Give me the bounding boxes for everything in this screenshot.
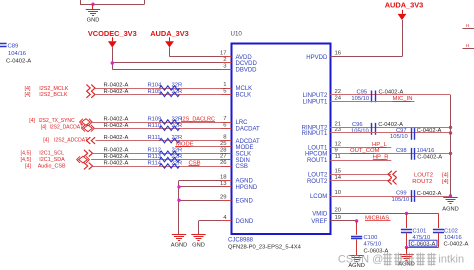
wire RINPUT1 row — [330, 132, 450, 134]
wire VMID row — [330, 213, 438, 215]
svg-text:C-0402-A: C-0402-A — [417, 128, 442, 134]
svg-text:CJC8988: CJC8988 — [228, 237, 254, 243]
capacitor C97 — [412, 128, 415, 140]
top gnd net wire — [80, 0, 82, 4]
off-page I2S2_BCLK — [86, 91, 95, 98]
svg-text:C102: C102 — [444, 229, 458, 235]
wire AGND/HPGND/EGND bus — [179, 180, 231, 182]
svg-text:C-0402-A: C-0402-A — [444, 241, 469, 247]
ground AGND under C100 — [349, 256, 363, 262]
svg-text:105/10: 105/10 — [392, 197, 410, 203]
wire/resistor R109 — [92, 122, 231, 124]
junction RINPUT1 bus — [449, 131, 452, 134]
svg-text:[4]: [4] — [43, 137, 49, 143]
wire/resistor R113 — [91, 159, 231, 161]
svg-text:ROUT2: ROUT2 — [412, 179, 432, 185]
svg-text:R-0402-A: R-0402-A — [104, 154, 129, 160]
svg-text:16: 16 — [335, 51, 342, 57]
svg-text:104/16: 104/16 — [8, 51, 27, 57]
svg-text:H: H — [466, 43, 469, 48]
svg-text:C100: C100 — [364, 235, 378, 241]
svg-text:AUDA_3V3: AUDA_3V3 — [150, 29, 189, 38]
svg-text:H: H — [466, 23, 469, 28]
svg-text:LRC: LRC — [236, 120, 249, 126]
svg-text:DGND: DGND — [236, 219, 254, 225]
junction VCODEC — [111, 61, 114, 64]
off-page I2S2_TX_SYNC — [80, 119, 93, 126]
svg-text:7: 7 — [223, 116, 226, 122]
svg-text:DBVDD: DBVDD — [236, 68, 258, 74]
svg-text:QFN28-P0_23-EPS2_5-4X4: QFN28-P0_23-EPS2_5-4X4 — [228, 244, 302, 250]
svg-text:I2S2_BCLK: I2S2_BCLK — [39, 92, 68, 98]
svg-text:C95: C95 — [357, 90, 368, 96]
capacitor C99 — [412, 190, 415, 202]
capacitor C100 — [356, 221, 358, 235]
svg-text:R104: R104 — [148, 83, 163, 89]
svg-text:AGND: AGND — [442, 207, 458, 213]
svg-text:28: 28 — [220, 147, 227, 153]
svg-text:R109: R109 — [148, 117, 162, 123]
svg-text:MODE: MODE — [236, 145, 254, 151]
watermark CSDN — [338, 253, 464, 266]
svg-text:[4]: [4] — [442, 179, 449, 185]
wire AUDA to pin 17 — [169, 47, 171, 56]
wire ROUT1 / net HP_R — [330, 160, 391, 162]
wire/resistor R112 — [93, 153, 232, 155]
svg-text:104/16: 104/16 — [444, 235, 462, 241]
svg-text:475/10: 475/10 — [364, 242, 382, 248]
svg-text:HPGND: HPGND — [236, 185, 258, 191]
svg-text:I2S2_ADCDAT: I2S2_ADCDAT — [54, 137, 88, 143]
capacitor C89 — [0, 44, 7, 47]
svg-text:I2S2_MCLK: I2S2_MCLK — [39, 86, 68, 92]
svg-text:MCLK: MCLK — [236, 86, 253, 92]
ground AGND under C101 — [406, 248, 408, 255]
off-page I2C1_SDA — [77, 156, 90, 163]
svg-text:R110: R110 — [148, 123, 161, 129]
svg-text:22R: 22R — [172, 154, 183, 160]
wire row R105 — [95, 94, 231, 96]
capacitor C95 — [372, 91, 376, 103]
edge stub HP_L top right — [463, 28, 474, 30]
junction HPGND — [177, 185, 180, 188]
svg-text:R-0402-A: R-0402-A — [104, 123, 129, 129]
junction top gnd — [91, 2, 94, 5]
svg-text:22R: 22R — [172, 123, 183, 129]
svg-text:1: 1 — [223, 82, 226, 88]
junction EGND — [177, 199, 180, 202]
svg-text:AGND: AGND — [236, 179, 254, 185]
ground GND top — [92, 4, 94, 9]
svg-text:Audio_CSB: Audio_CSB — [38, 163, 66, 169]
svg-text:R114: R114 — [148, 161, 162, 167]
wire row R104 — [95, 88, 231, 90]
svg-text:GND: GND — [192, 243, 205, 249]
wire LOUT1 / net HP_L — [330, 147, 391, 149]
svg-text:VREF: VREF — [311, 219, 327, 225]
wire LINPUT1 row / net MIC_IN — [330, 101, 411, 103]
svg-text:I2S2_TX_SYNC: I2S2_TX_SYNC — [39, 118, 76, 124]
svg-text:22R: 22R — [172, 161, 183, 167]
capacitor C102 — [438, 213, 440, 228]
off-page LOUT2 — [388, 171, 397, 178]
svg-text:LOUT2: LOUT2 — [414, 172, 433, 178]
svg-text:VMID: VMID — [312, 212, 328, 218]
svg-text:CSB: CSB — [236, 164, 248, 170]
svg-text:C101: C101 — [413, 229, 427, 235]
junction HPCOM bus — [449, 152, 452, 155]
junction VREF C100 — [355, 219, 358, 222]
svg-text:[4]: [4] — [25, 163, 31, 169]
svg-text:intkin: intkin — [438, 254, 464, 266]
wire/resistor R110 — [94, 128, 231, 130]
svg-text:CSDN @: CSDN @ — [338, 254, 383, 266]
svg-text:C-0402-A: C-0402-A — [417, 154, 442, 160]
svg-text:ROUT2: ROUT2 — [307, 179, 328, 185]
svg-text:BCLK: BCLK — [236, 93, 252, 99]
off-page I2S2_DACDAT — [82, 125, 95, 132]
svg-text:22R: 22R — [172, 89, 183, 95]
wire VCODEC to pins 2,3 — [112, 47, 114, 69]
svg-text:22R: 22R — [172, 135, 183, 141]
svg-text:I2C1_SDA: I2C1_SDA — [39, 157, 65, 163]
svg-text:AVDD: AVDD — [236, 55, 253, 61]
off-page I2C1_SCL — [84, 150, 93, 157]
svg-text:R111: R111 — [148, 135, 161, 141]
junction C101 bottom — [405, 246, 408, 249]
resistor R105 — [160, 92, 180, 96]
svg-text:27: 27 — [220, 154, 227, 160]
svg-text:[4]: [4] — [29, 118, 35, 124]
svg-text:22R: 22R — [172, 83, 183, 89]
wire LINPUT2 row — [330, 94, 450, 96]
ground AGND bottom-left — [172, 235, 186, 241]
svg-text:17: 17 — [220, 51, 227, 57]
junction VMID C101 — [405, 212, 408, 215]
junction LCOM bus — [449, 194, 452, 197]
svg-text:[4]: [4] — [25, 86, 31, 92]
capacitor C98 — [412, 148, 415, 160]
wire C101-C102 bottom — [407, 247, 439, 249]
svg-text:[4,5]: [4,5] — [21, 157, 32, 163]
svg-text:104/16: 104/16 — [417, 148, 435, 154]
ground GND bottom — [191, 235, 205, 241]
wire ROUT2 — [330, 180, 391, 182]
svg-text:20: 20 — [335, 208, 342, 214]
capacitor C101 — [406, 213, 408, 228]
svg-text:AGND: AGND — [171, 243, 187, 249]
wire HPCOM / net OUT_COM — [330, 153, 450, 155]
svg-text:LOUT2: LOUT2 — [308, 172, 328, 178]
svg-text:105/10: 105/10 — [351, 129, 369, 135]
wire DGND — [199, 220, 232, 222]
svg-text:LCOM: LCOM — [310, 194, 327, 200]
wire input AGND bus — [450, 95, 452, 196]
wire VREF row / net MICBIAS — [330, 220, 356, 222]
svg-text:15: 15 — [335, 168, 342, 174]
svg-text:11: 11 — [335, 154, 341, 160]
off-page I2S2_MCLK — [86, 85, 95, 92]
svg-text:R-0402-A: R-0402-A — [104, 117, 129, 123]
svg-text:DCVDD: DCVDD — [236, 61, 258, 67]
off-page ROUT2 — [388, 178, 397, 185]
svg-text:R-0402-A: R-0402-A — [104, 83, 129, 89]
svg-text:AUDA_3V3: AUDA_3V3 — [385, 1, 424, 10]
svg-text:U10: U10 — [231, 31, 243, 38]
svg-text:C-0402-A: C-0402-A — [417, 191, 442, 197]
op-amp codec U10 box — [232, 44, 331, 235]
svg-text:105/10: 105/10 — [390, 134, 408, 140]
svg-text:9: 9 — [335, 148, 338, 154]
svg-text:RINPUT1: RINPUT1 — [302, 131, 328, 137]
svg-text:SCLK: SCLK — [236, 151, 252, 157]
svg-text:C-0402-A: C-0402-A — [6, 59, 31, 65]
wire HPVDD — [402, 20, 404, 57]
net stub MODE — [175, 146, 231, 148]
svg-text:[4,5]: [4,5] — [21, 151, 32, 157]
svg-text:R105: R105 — [148, 89, 162, 95]
svg-text:[4]: [4] — [25, 92, 31, 98]
svg-text:I2S2_DACDAT: I2S2_DACDAT — [50, 125, 83, 131]
svg-text:EGND: EGND — [236, 198, 254, 204]
wire/resistor R114 — [93, 166, 232, 168]
svg-text:[4]: [4] — [442, 172, 449, 178]
off-page Audio_CSB — [84, 163, 93, 170]
wire/resistor R111 — [96, 140, 232, 142]
wire LOUT2 — [330, 174, 391, 176]
svg-text:I2C1_SCL: I2C1_SCL — [39, 151, 64, 157]
junction RINPUT2 bus — [449, 126, 452, 129]
svg-text:GND: GND — [87, 18, 100, 24]
svg-text:R112: R112 — [148, 148, 161, 154]
svg-text:29: 29 — [220, 194, 227, 200]
svg-text:18: 18 — [220, 175, 227, 181]
resistor R104 — [160, 86, 180, 90]
svg-text:R113: R113 — [148, 154, 161, 160]
svg-text:LINPUT2: LINPUT2 — [303, 93, 328, 99]
svg-text:HPVDD: HPVDD — [306, 55, 328, 61]
wire RINPUT2 row — [330, 127, 450, 129]
svg-text:R-0402-A: R-0402-A — [104, 148, 129, 154]
capacitor C96 — [372, 123, 376, 135]
svg-text:22R: 22R — [172, 148, 183, 154]
svg-text:C96: C96 — [352, 122, 363, 128]
svg-text:R-0402-A: R-0402-A — [104, 135, 129, 141]
ground AGND right — [443, 198, 457, 204]
off-page I2S2_ADCDAT — [87, 137, 96, 144]
edge stub HP_R top right — [463, 48, 474, 50]
svg-text:LINPUT1: LINPUT1 — [303, 100, 328, 106]
svg-text:DACDAT: DACDAT — [236, 127, 261, 133]
svg-text:26: 26 — [220, 160, 227, 166]
svg-text:R-0402-A: R-0402-A — [104, 89, 129, 95]
svg-text:C98: C98 — [396, 148, 407, 154]
svg-text:SDIN: SDIN — [236, 158, 250, 164]
svg-text:10: 10 — [335, 190, 342, 196]
svg-text:C-0402-A: C-0402-A — [379, 89, 404, 95]
svg-text:R-0402-A: R-0402-A — [104, 161, 129, 167]
svg-text:24: 24 — [335, 96, 342, 102]
svg-text:VCODEC_3V3: VCODEC_3V3 — [88, 29, 137, 38]
svg-text:ROUT1: ROUT1 — [307, 158, 328, 164]
svg-text:HPCOM: HPCOM — [305, 152, 327, 158]
svg-text:C99: C99 — [396, 191, 407, 197]
wire LCOM row — [330, 196, 450, 198]
svg-text:[4]: [4] — [41, 125, 47, 131]
svg-text:C89: C89 — [8, 44, 19, 50]
svg-text:ADCDAT: ADCDAT — [236, 139, 261, 145]
